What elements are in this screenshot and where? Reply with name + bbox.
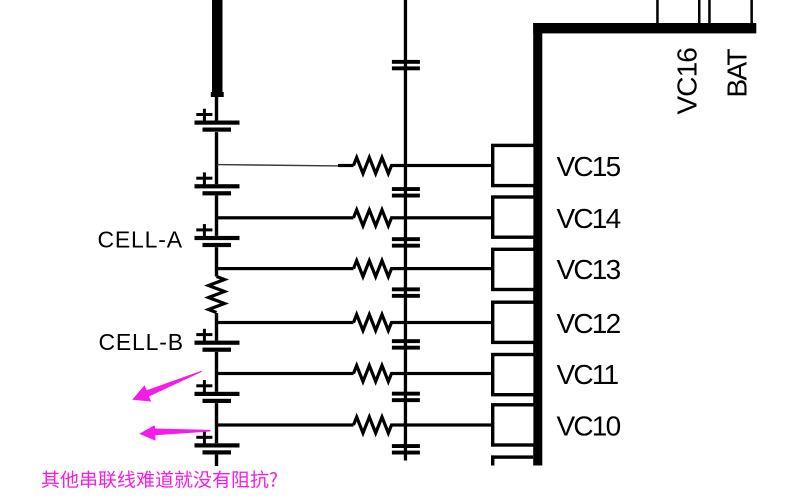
svg-text:VC16: VC16	[672, 48, 703, 115]
wire: battery chain B5-B6	[215, 403, 218, 443]
wire: battery chain B2-B3	[215, 196, 218, 236]
svg-text:VC15: VC15	[557, 151, 621, 182]
wire: vertical filter bus	[404, 0, 407, 461]
wire: R6 to bus to pin box VC10	[390, 423, 492, 426]
capacitor C6 on filter bus	[392, 444, 420, 454]
pin BAT box left edge (cropped)	[708, 0, 711, 24]
wire: battery chain tap to R4 (row VC12)	[215, 321, 354, 324]
wire: battery chain B3-R7	[215, 247, 218, 276]
resistor R1 (series filter)	[354, 158, 392, 174]
battery cell B5 plates	[195, 392, 240, 403]
annotation arrow 1 (points to B4/B5 junction)	[132, 371, 202, 402]
pin box VC10	[493, 405, 535, 445]
wire: R3 to bus to pin box VC13	[390, 267, 492, 270]
resistor R3 (series filter)	[354, 261, 392, 277]
pin box VC9 (partial, cropped)	[491, 455, 533, 465]
pin VC16 box left edge (cropped)	[656, 0, 659, 24]
IC U1 top edge	[533, 23, 756, 33]
resistor R4 (series filter)	[354, 315, 392, 331]
op-amp/AFE IC U1 left edge	[533, 23, 542, 466]
battery cell B6 plates	[195, 443, 240, 454]
battery cell B3 plates	[195, 236, 240, 247]
annotation arrow 2 (points to B5/B6 junction)	[139, 425, 210, 441]
resistor R2 (series filter)	[354, 210, 392, 226]
svg-text:CELL-B: CELL-B	[99, 329, 184, 355]
pin box VC12	[493, 302, 535, 342]
battery cell B4 plates	[195, 341, 240, 352]
wire: R1 to bus to pin box VC15	[390, 164, 492, 167]
wire: R5 to bus to pin box VC11	[390, 372, 492, 375]
wire: feed to B1	[215, 96, 218, 122]
battery cell B1 plates	[195, 121, 240, 132]
resistor R7 (inter-cell series impedance)	[209, 277, 225, 313]
svg-text:VC12: VC12	[557, 308, 621, 339]
wire: thin tap from B1/B2 junction to R1 (row VC15)	[217, 165, 340, 166]
pin box VC11	[493, 355, 535, 395]
battery cell B4 plus sign	[196, 329, 212, 341]
capacitor C5 on filter bus	[392, 392, 420, 402]
capacitor C4 on filter bus	[392, 339, 420, 349]
svg-text:CELL-A: CELL-A	[98, 227, 183, 253]
svg-text:VC14: VC14	[557, 203, 621, 234]
pin box VC14	[493, 197, 535, 237]
wire: battery chain below B6	[215, 455, 218, 466]
wire: battery chain tap to R5 (row VC11)	[215, 372, 354, 375]
battery cell B3 plus sign	[196, 224, 212, 236]
capacitor C0 on filter bus	[392, 60, 420, 70]
pin box VC13	[493, 249, 535, 289]
annotation text: 其他串联线难道就没有阻抗? (magenta)	[42, 470, 277, 488]
battery cell B2 plates	[195, 184, 240, 195]
pin VC16 box right edge (cropped)	[698, 0, 701, 24]
svg-text:VC11: VC11	[557, 359, 619, 390]
pin box VC15	[493, 145, 535, 185]
wire: R2 to bus to pin box VC14	[390, 216, 492, 219]
svg-text:BAT: BAT	[722, 49, 753, 98]
thick battery stack feed wire (top)	[211, 0, 224, 97]
capacitor C2 on filter bus	[392, 237, 420, 247]
wire: R1 left lead	[338, 164, 354, 167]
battery cell B2 plus sign	[196, 172, 212, 184]
battery cell B6 plus sign	[196, 432, 212, 444]
wire: R4 to bus to pin box VC12	[390, 321, 492, 324]
capacitor C3 on filter bus	[392, 287, 420, 297]
battery cell B1 plus sign	[196, 109, 212, 121]
battery cell B5 plus sign	[196, 380, 212, 392]
capacitor C1 on filter bus	[392, 187, 420, 197]
wire: battery chain B1-B2	[215, 132, 218, 184]
resistor R5 (series filter)	[354, 366, 392, 382]
wire: battery chain tap to R3 (row VC13)	[215, 267, 354, 270]
svg-text:VC13: VC13	[557, 254, 621, 285]
wire: battery chain tap to R6 (row VC10)	[215, 423, 354, 426]
pin BAT box right edge (cropped)	[750, 0, 753, 24]
wire: battery chain B4-B5	[215, 352, 218, 392]
wire: battery chain tap to R2 (row VC14)	[215, 216, 354, 219]
svg-text:VC10: VC10	[557, 410, 621, 441]
wire: battery chain R7-B4	[215, 313, 218, 341]
resistor R6 (series filter)	[354, 417, 392, 433]
